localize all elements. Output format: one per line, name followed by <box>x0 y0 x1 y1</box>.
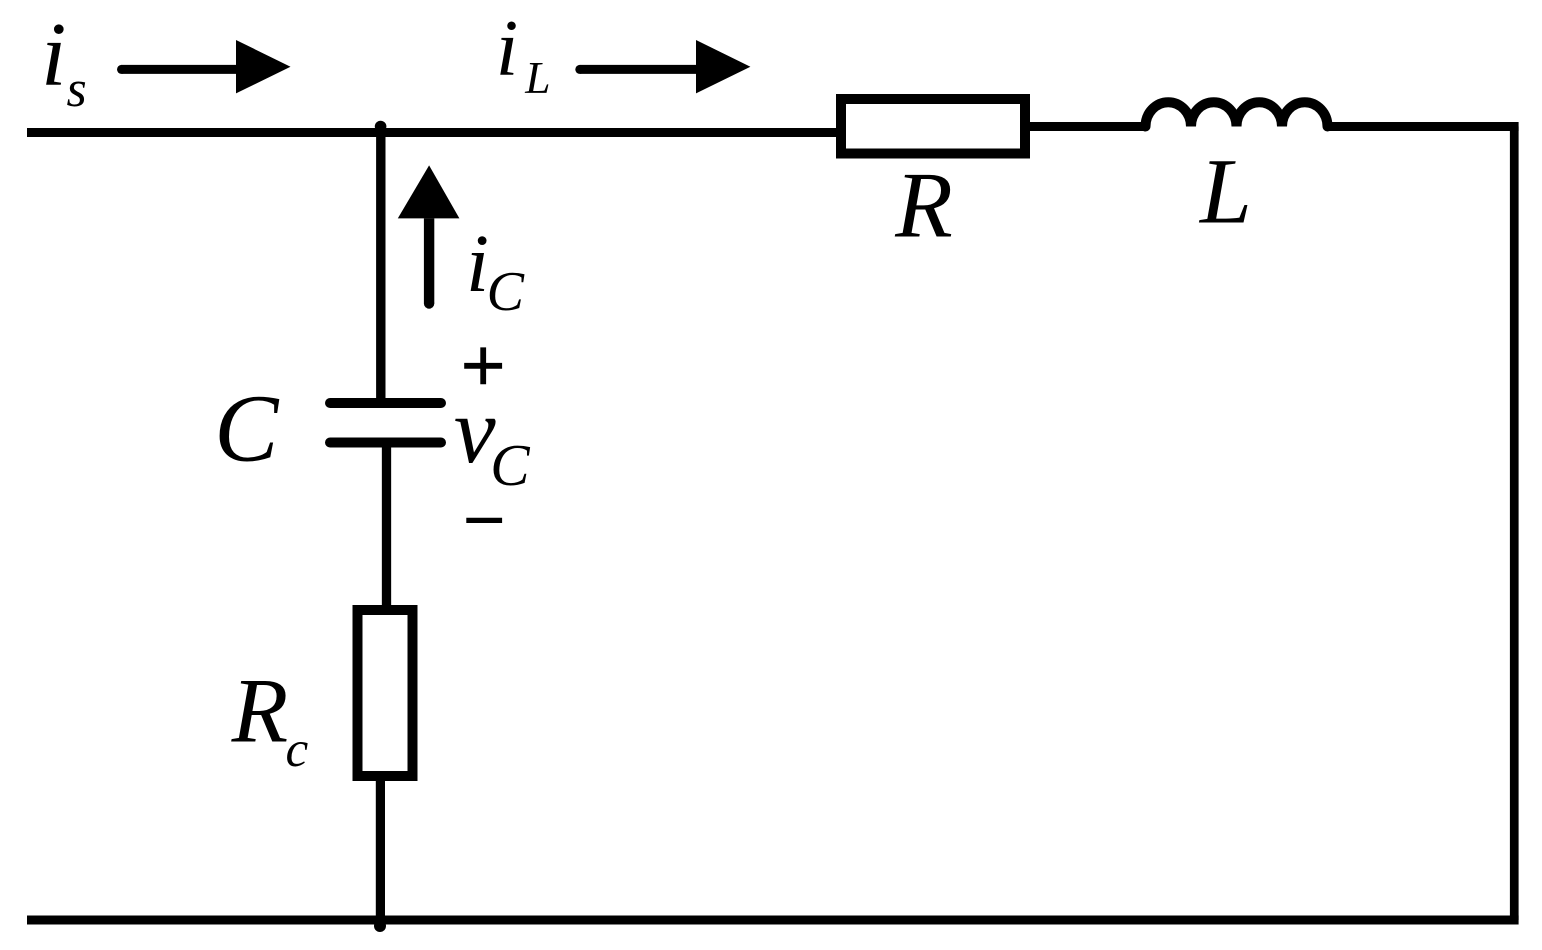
resistor R <box>841 99 1025 154</box>
svg-text:c: c <box>286 721 309 778</box>
svg-text:L: L <box>524 52 550 103</box>
svg-text:i: i <box>466 217 489 309</box>
plus sign (v_C polarity) <box>464 347 502 384</box>
resistor Rc <box>358 610 413 776</box>
wire R to L <box>1025 122 1146 131</box>
wire L to top-right corner <box>1327 122 1519 131</box>
wire capacitor to Rc <box>382 443 391 608</box>
svg-text:R: R <box>894 154 953 258</box>
wire top-left segment <box>27 128 841 137</box>
svg-text:i: i <box>41 3 66 105</box>
wire Rc to bottom <box>376 779 385 920</box>
arrow i_s <box>117 40 291 93</box>
svg-text:i: i <box>496 3 519 93</box>
minus sign (v_C polarity) <box>466 518 502 523</box>
wire capacitor branch top <box>376 132 385 403</box>
svg-text:C: C <box>487 261 525 323</box>
node junction dot bottom <box>374 920 386 932</box>
wire bottom <box>27 916 1519 925</box>
svg-text:C: C <box>214 375 280 482</box>
wire right vertical <box>1510 127 1519 921</box>
capacitor C top plate <box>330 398 441 408</box>
svg-text:R: R <box>231 660 289 763</box>
svg-text:L: L <box>1198 141 1252 244</box>
svg-text:C: C <box>490 432 530 498</box>
arrow i_C (upward) <box>398 165 460 308</box>
arrow i_L <box>575 40 750 93</box>
capacitor C bottom plate <box>330 438 441 448</box>
node junction dot top (capacitor branch tap) <box>375 121 387 133</box>
inductor L (4-hump coil) <box>1146 102 1328 126</box>
svg-text:s: s <box>67 61 87 118</box>
